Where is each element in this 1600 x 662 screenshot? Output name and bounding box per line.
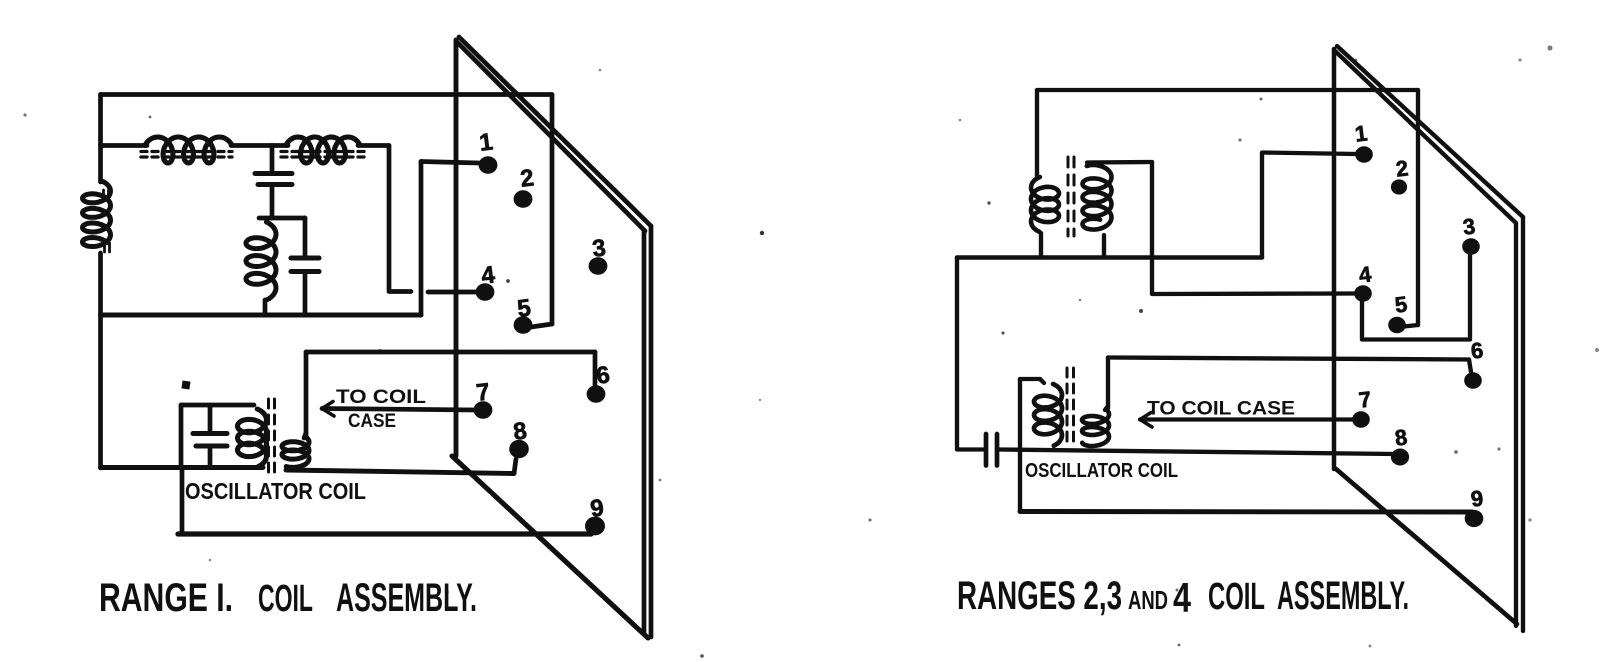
svg-text:TO COIL CASE: TO COIL CASE [1147,399,1295,420]
svg-text:4: 4 [1173,574,1191,621]
svg-text:OSCILLATOR COIL: OSCILLATOR COIL [1025,460,1178,482]
svg-text:RANGE I.: RANGE I. [99,576,233,620]
svg-text:COIL: COIL [1208,576,1265,618]
svg-text:OSCILLATOR COIL: OSCILLATOR COIL [185,478,366,504]
svg-text:CASE: CASE [348,411,396,432]
svg-text:ASSEMBLY.: ASSEMBLY. [1277,574,1409,618]
svg-text:ASSEMBLY.: ASSEMBLY. [336,576,477,620]
svg-text:TO COIL: TO COIL [336,387,426,408]
svg-text:COIL: COIL [258,578,313,620]
svg-text:RANGES 2,3: RANGES 2,3 [957,574,1122,618]
svg-text:AND: AND [1128,585,1168,615]
